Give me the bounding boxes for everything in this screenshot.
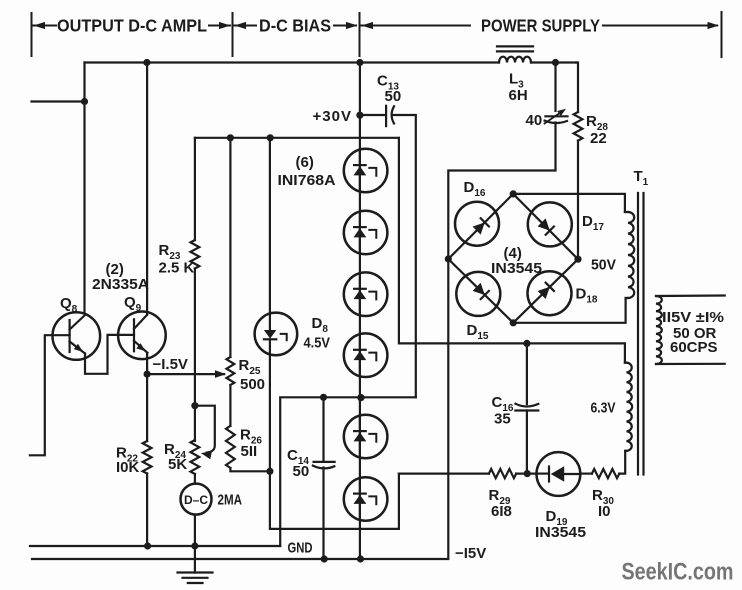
svg-text:6I8: 6I8 [491, 503, 512, 520]
wire GND rail [30, 545, 280, 547]
wire R28 to bridge [577, 141, 579, 260]
svg-text:500: 500 [240, 376, 265, 393]
wire D8 bottom [269, 355, 271, 472]
node stack mid on GND line [357, 394, 364, 401]
node Q9 collector on top rail [143, 59, 150, 66]
resistor R30 [592, 469, 619, 478]
node -1.5V junction [144, 371, 151, 378]
resistor R29 [489, 469, 516, 478]
wire R25 to R26 [229, 385, 231, 426]
wire R26 bottom [230, 468, 270, 471]
capacitor C13 [385, 106, 387, 126]
dimension tick 2 [232, 13, 234, 56]
svg-text:22: 22 [590, 130, 607, 147]
resistor R28 [574, 112, 583, 141]
svg-text:+30V: +30V [313, 108, 352, 125]
node meter on GND rail [191, 542, 198, 549]
winding 50V [628, 212, 634, 298]
transistor Q9 [118, 312, 166, 360]
wire Q9 collector [146, 63, 148, 315]
transistor Q8 [53, 312, 101, 360]
wire bias rail [195, 137, 399, 139]
wire 50V winding bottom to bridge bottom [513, 298, 625, 323]
diode D19 [537, 452, 581, 496]
svg-text:5K: 5K [168, 456, 187, 473]
diode stack 1N1768A #5 [344, 415, 388, 459]
wire Q8 base lead [30, 335, 70, 455]
resistor R22 [143, 441, 152, 474]
wire bridge arm D16 [448, 194, 513, 259]
resistor R24 [191, 440, 200, 474]
node C16 bottom [524, 470, 531, 477]
svg-text:I0: I0 [598, 503, 611, 520]
wire stack-right rail down [399, 138, 625, 363]
wire bridge-left down to -15V rail [447, 259, 449, 474]
winding 6.3V [627, 363, 633, 451]
wire D8 top [269, 138, 271, 314]
wire meter to GND rail [194, 515, 196, 573]
wire bridge arm D15 [448, 259, 513, 323]
wire R23 to R24 [194, 269, 196, 442]
svg-text:INI768A: INI768A [278, 172, 336, 189]
wire Q8 emitter to Q9 base [85, 335, 134, 374]
diode stack 1N1768A #2 [344, 211, 388, 255]
dimension tick 3 [359, 13, 361, 56]
wire -1.5V to R25 wiper [147, 373, 224, 375]
node R24 wiper loop junction [191, 402, 198, 409]
diode D17 [528, 202, 572, 246]
svg-text:−I.5V: −I.5V [153, 356, 188, 373]
ground [178, 571, 213, 573]
variable capacitor 40 [545, 115, 567, 117]
dimension tick right [721, 12, 723, 57]
wire stack between sections [359, 149, 361, 400]
wire Q8 collector [83, 63, 85, 314]
wire R24 to meter [194, 474, 196, 484]
node D8 column on bias rail [267, 134, 274, 141]
svg-text:4.5V: 4.5V [304, 335, 331, 352]
wire D8 junction to -15V jog [270, 471, 399, 529]
wire GND riser [280, 397, 416, 546]
svg-text:(6): (6) [296, 154, 314, 171]
transformer core [637, 193, 639, 475]
node R26/D8 junction [266, 468, 273, 475]
capacitor C14 [314, 461, 335, 463]
svg-text:−I5V: −I5V [455, 545, 486, 562]
wire R22 bottom [146, 474, 148, 547]
svg-text:50: 50 [293, 463, 310, 480]
wire top rail right of L3 [531, 61, 576, 63]
wire R29 to D19 [516, 473, 536, 475]
node R22 on GND rail [144, 542, 151, 549]
svg-text:60CPS: 60CPS [670, 339, 718, 356]
node 40-cap branch [552, 59, 559, 66]
svg-text:6H: 6H [509, 87, 528, 104]
svg-text:35: 35 [494, 411, 511, 428]
diode stack 1N1768A #4 [344, 333, 388, 377]
dimension arrow right (POWER section) [603, 25, 717, 27]
svg-text:GND: GND [288, 540, 313, 557]
svg-text:2.5 K: 2.5 K [159, 260, 195, 277]
wire R23 top [194, 138, 196, 240]
node R25 column on bias rail [227, 134, 234, 141]
meter D-C 2MA [181, 484, 212, 515]
node D-C bias column on top rail [356, 59, 363, 66]
dimension arrow right (BIAS section) [334, 25, 356, 27]
wire bridge arm D17 [513, 194, 578, 259]
wire stack top [359, 63, 361, 150]
svg-text:40: 40 [526, 112, 543, 129]
inductor L3 [499, 57, 531, 63]
wire bridge top to 50V winding [513, 194, 625, 212]
wire D19 to R30 [580, 473, 592, 475]
resistor R23 [191, 240, 200, 269]
node stack on -15V rail [357, 555, 364, 562]
svg-text:I0K: I0K [116, 459, 140, 476]
node bridge right [574, 256, 581, 263]
wire R25 top [229, 138, 231, 357]
diode stack 1N1768A #1 [344, 149, 388, 193]
svg-text:OUTPUT D-C AMPL: OUTPUT D-C AMPL [57, 16, 207, 36]
svg-text:2MA: 2MA [218, 492, 243, 509]
dimension arrow left (POWER section) [362, 22, 374, 29]
wire top rail left of L3 [85, 61, 500, 63]
svg-text:5II: 5II [241, 443, 258, 460]
diode stack 1N1768A #6 [344, 477, 388, 521]
diode D18 [528, 271, 572, 315]
wire bridge arm D18 [513, 259, 578, 323]
dimension tick left [31, 13, 33, 56]
potentiometer R25 [227, 357, 235, 385]
svg-text:6.3V: 6.3V [591, 400, 616, 417]
svg-text:50V: 50V [591, 257, 616, 274]
svg-text:POWER SUPPLY: POWER SUPPLY [481, 16, 600, 36]
node bridge bottom [510, 319, 517, 326]
svg-text:D-C BIAS: D-C BIAS [259, 16, 331, 36]
wire Q9 emitter [146, 353, 148, 374]
wire 115V top lead [656, 294, 725, 297]
wire -15V jog to R29 [399, 473, 489, 475]
svg-text:D–C: D–C [184, 493, 208, 507]
wire 115V bottom lead [656, 363, 725, 365]
resistor R26 [226, 426, 235, 468]
wire left stub [32, 100, 85, 102]
node bridge left [445, 255, 452, 262]
capacitor C16 [515, 404, 538, 407]
node C16 top [523, 340, 530, 347]
wire C14 top lead [322, 397, 324, 462]
wire -15V rail [32, 474, 448, 559]
wire R22 top [146, 374, 148, 441]
zener D8 [255, 313, 298, 356]
dimension arrow left (OUTPUT section) [34, 22, 46, 29]
diode D16 [455, 202, 499, 246]
node bridge top [510, 190, 517, 197]
node stack GND junction [357, 394, 364, 401]
diode stack 1N1768A #3 [344, 272, 388, 316]
wire C14 bottom lead [322, 468, 324, 560]
node left stub junction [81, 98, 88, 105]
wire C16 bottom lead [526, 411, 528, 474]
node +30V [356, 112, 363, 119]
wire C13 right lead [393, 115, 416, 397]
wire C16 top lead [526, 343, 528, 404]
wire 40-cap branch lower [448, 123, 555, 260]
wire 6.3V winding bottom to R30 [619, 451, 625, 474]
diode D15 [456, 272, 500, 316]
wire 40-cap branch upper [554, 63, 556, 112]
node C14 on -15V rail [321, 555, 328, 562]
node C14 top [320, 394, 327, 401]
inductor L3 core lines [497, 45, 533, 47]
dimension arrow left (BIAS section) [235, 22, 247, 29]
wire R24 wiper loop [195, 406, 215, 453]
wire +30V to C13 [360, 114, 385, 116]
svg-text:50: 50 [385, 88, 402, 105]
winding 115V [656, 296, 662, 364]
dimension arrow right (OUTPUT section) [209, 25, 230, 27]
wire R28 branch upper [576, 63, 578, 113]
svg-text:IN3545: IN3545 [535, 524, 586, 541]
svg-text:SeekIC.com: SeekIC.com [622, 559, 734, 586]
svg-text:2N335A: 2N335A [92, 276, 149, 293]
svg-text:II5V ±I%: II5V ±I% [662, 309, 724, 326]
wire stack lower section [359, 400, 361, 559]
svg-text:IN3545: IN3545 [491, 260, 542, 277]
